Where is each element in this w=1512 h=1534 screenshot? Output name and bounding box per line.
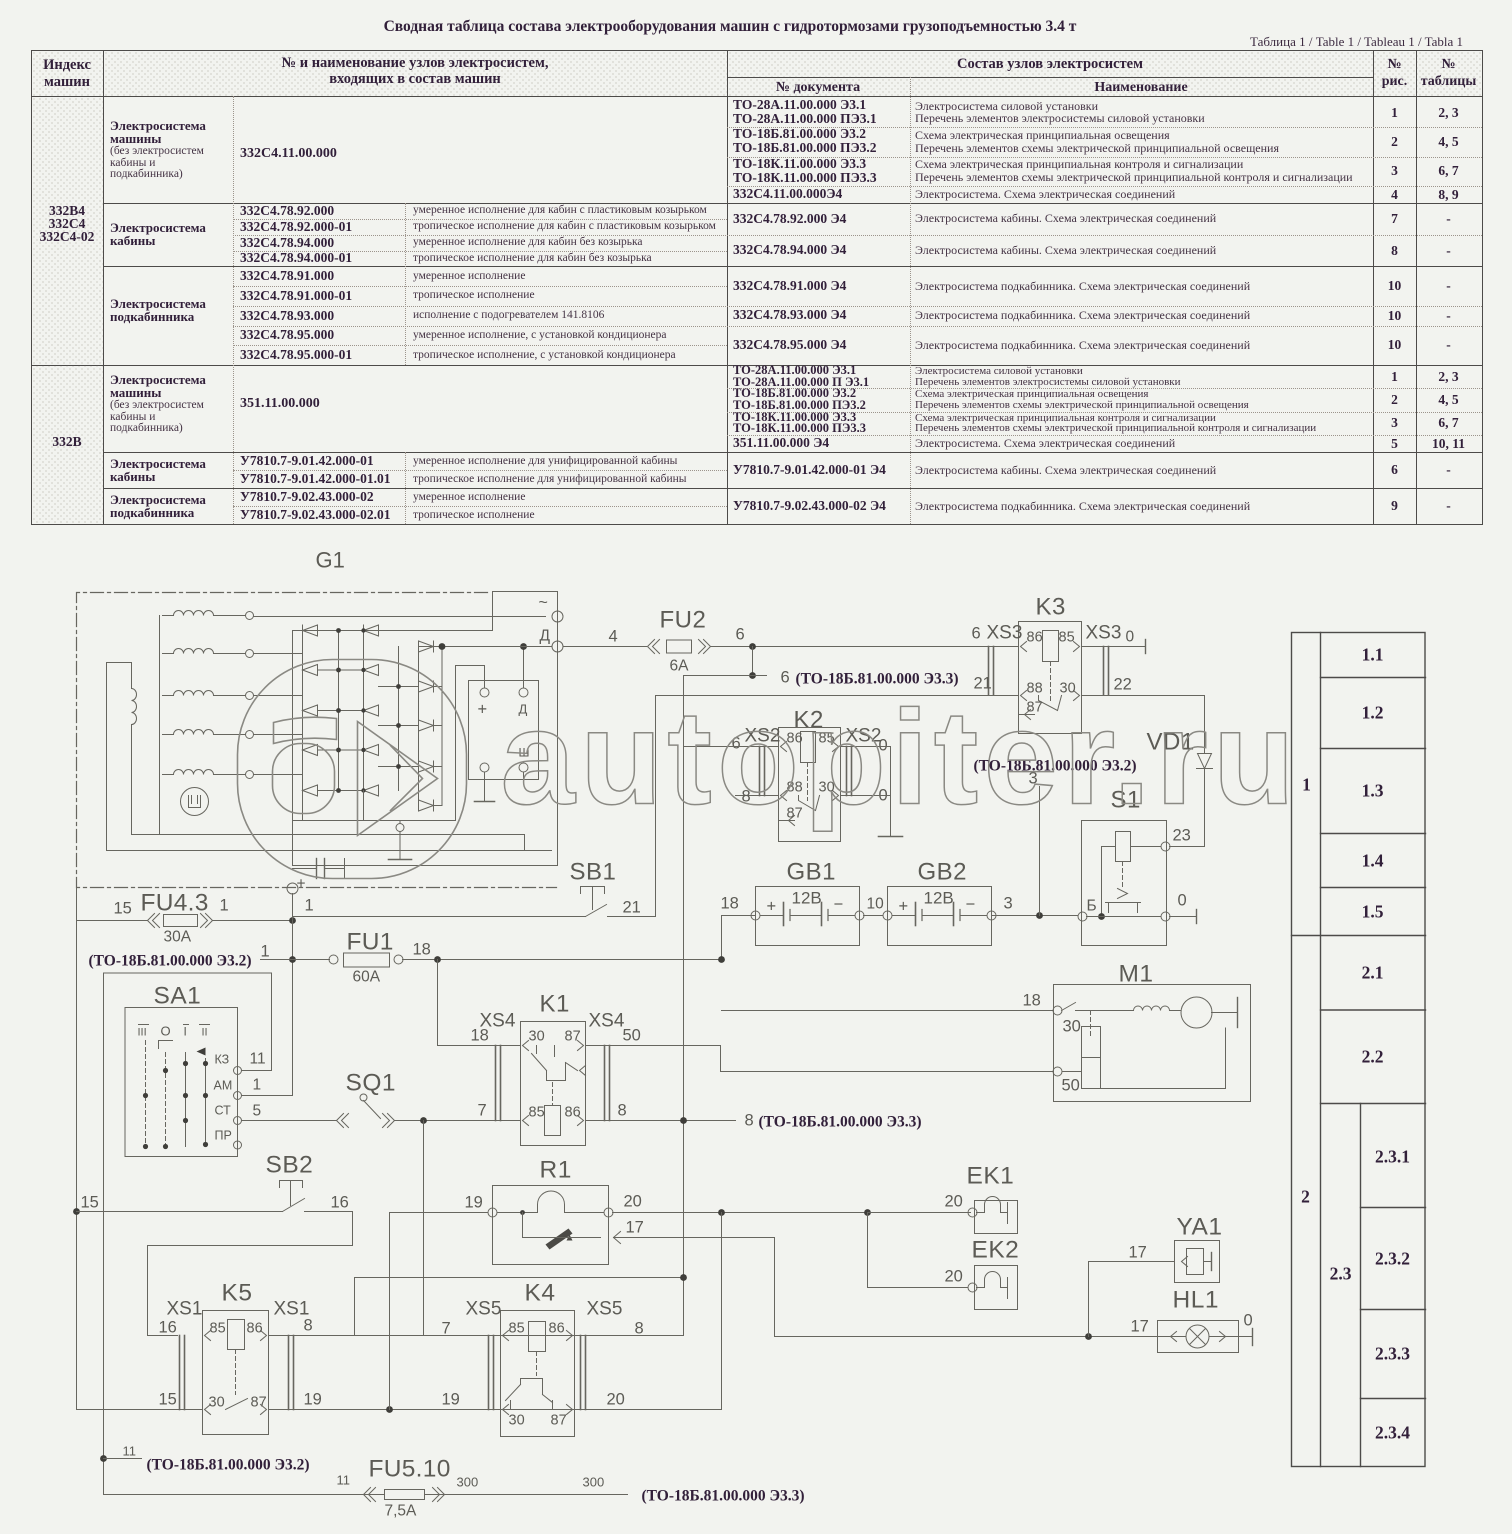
svg-text:16: 16: [159, 1319, 177, 1337]
SA1 position lines: [145, 1041, 147, 1147]
svg-text:2.3.1: 2.3.1: [1375, 1147, 1410, 1167]
K2 ground wires: [841, 746, 891, 748]
svg-text:YA1: YA1: [1177, 1214, 1223, 1241]
svg-text:19: 19: [465, 1194, 483, 1212]
K4 wires 7/8: [424, 1335, 501, 1337]
bottom wire net 15/19/20: [77, 1409, 203, 1411]
svg-text:~: ~: [539, 595, 548, 612]
svg-text:12В: 12В: [792, 889, 822, 908]
svg-text:6: 6: [736, 626, 745, 644]
svg-text:8: 8: [304, 1317, 313, 1335]
K1 coil: [545, 1106, 561, 1136]
stator winding phase 3: [163, 695, 174, 697]
svg-text:(ТО-18Б.81.00.000 Э3.3): (ТО-18Б.81.00.000 Э3.3): [759, 1114, 922, 1131]
wire 15 to SB2: [76, 921, 78, 1410]
svg-text:GB1: GB1: [787, 859, 837, 886]
svg-text:6: 6: [972, 625, 981, 643]
svg-text:−: −: [966, 896, 976, 914]
brush slip-ring symbol: [181, 788, 209, 816]
wire 20 to EK1: [868, 1212, 968, 1214]
svg-text:HL1: HL1: [1173, 1287, 1219, 1314]
wire 6 (FU2 to K3): [711, 646, 1019, 648]
bridge bottom bus: [302, 791, 304, 821]
rectifier unit box: [293, 592, 558, 866]
S1 coil: [1116, 832, 1131, 862]
svg-text:3: 3: [1004, 895, 1013, 913]
wire 18 (GB1 to bus): [722, 915, 756, 917]
svg-text:1: 1: [253, 1077, 262, 1094]
svg-text:SB2: SB2: [266, 1152, 314, 1179]
svg-text:1.4: 1.4: [1362, 851, 1384, 871]
svg-text:7: 7: [442, 1320, 451, 1338]
K5 pin arrows: [205, 1331, 211, 1341]
wire АМ (net 1): [242, 1095, 293, 1097]
K2 coil: [801, 732, 816, 763]
svg-text:11: 11: [337, 1473, 351, 1488]
svg-text:III: III: [138, 1027, 147, 1039]
generator ground terminal: [396, 824, 404, 832]
svg-text:10: 10: [867, 896, 885, 913]
wire 10 (GB1 to GB2): [864, 915, 883, 917]
K1 wires 7/8: [496, 1120, 521, 1122]
svg-text:autopiter.ru: autopiter.ru: [501, 684, 1300, 833]
svg-text:1: 1: [220, 897, 229, 915]
svg-text:15: 15: [81, 1194, 99, 1212]
wire 8 from K5: [269, 1335, 684, 1337]
svg-text:О: О: [161, 1024, 171, 1039]
wire 7 riser to K4: [423, 1121, 425, 1336]
svg-text:0: 0: [1178, 892, 1187, 910]
svg-text:85: 85: [1059, 630, 1075, 646]
bridge row links: [338, 631, 340, 791]
svg-text:17: 17: [1131, 1318, 1149, 1336]
wire net 6 vertical: [683, 676, 685, 1336]
voltage regulator box: [469, 681, 539, 780]
svg-text:II: II: [202, 1027, 208, 1039]
svg-text:1: 1: [1302, 775, 1311, 795]
svg-text:XS1: XS1: [167, 1299, 203, 1320]
svg-text:16: 16: [331, 1194, 349, 1212]
svg-text:1: 1: [305, 897, 314, 915]
svg-text:XS5: XS5: [587, 1299, 623, 1320]
capacitor at B+: [293, 868, 317, 870]
svg-text:SQ1: SQ1: [346, 1070, 397, 1097]
S1 terminal 23: [1161, 842, 1170, 851]
wire 16 from SB2: [305, 1211, 353, 1213]
svg-text:50: 50: [1062, 1077, 1080, 1095]
S1 terminal 0: [1161, 912, 1170, 921]
svg-text:8: 8: [618, 1102, 627, 1120]
wire 19 to R1: [390, 1212, 488, 1214]
svg-text:K5: K5: [222, 1280, 253, 1307]
SB2 contact blade: [283, 1199, 305, 1212]
terminal + of G1: [287, 883, 298, 894]
svg-text:1.2: 1.2: [1362, 703, 1384, 723]
svg-text:19: 19: [442, 1391, 460, 1409]
wire 8 upper link: [355, 1277, 684, 1279]
svg-text:0: 0: [1126, 629, 1135, 646]
svg-text:87: 87: [551, 1413, 567, 1429]
regulator wiring: [484, 666, 486, 689]
svg-text:1.5: 1.5: [1362, 902, 1384, 922]
svg-text:11: 11: [123, 1444, 137, 1459]
wire 3 riser to annotation: [1039, 787, 1041, 916]
stator winding phase 2: [163, 653, 174, 655]
svg-text:30: 30: [209, 1395, 225, 1411]
wire 21 riser: [655, 696, 657, 917]
svg-text:XS3: XS3: [987, 623, 1023, 644]
svg-text:EK2: EK2: [972, 1237, 1020, 1264]
svg-text:M1: M1: [1119, 961, 1154, 988]
R1 element: [497, 1212, 538, 1214]
svg-text:50: 50: [623, 1027, 641, 1045]
svg-text:+: +: [767, 898, 777, 916]
S1 terminal Б: [1078, 912, 1087, 921]
svg-text:300: 300: [457, 1475, 479, 1490]
svg-text:21: 21: [623, 899, 641, 917]
svg-text:85: 85: [509, 1321, 525, 1337]
svg-text:7,5А: 7,5А: [385, 1503, 418, 1520]
diode bridge column B: [363, 631, 365, 791]
terminal Д of G1: [552, 641, 563, 652]
svg-text:8: 8: [635, 1320, 644, 1338]
K3 pin arrows: [1021, 642, 1027, 652]
K4 pin arrows: [503, 1331, 509, 1341]
svg-text:30: 30: [509, 1413, 525, 1429]
svg-text:18: 18: [413, 941, 431, 959]
svg-text:−: −: [834, 896, 844, 914]
M1 wire 18: [722, 1010, 1053, 1012]
regulator ground: [484, 772, 486, 801]
svg-text:87: 87: [565, 1029, 581, 1045]
M1 motor: [1134, 1006, 1170, 1011]
svg-text:86: 86: [549, 1321, 565, 1337]
svg-text:15: 15: [159, 1391, 177, 1409]
M1 terminal 18: [1053, 1006, 1062, 1015]
generator G1 enclosure (dash-dot): [77, 593, 557, 888]
svg-text:300: 300: [583, 1475, 605, 1490]
K5 contact: [226, 1399, 248, 1410]
K1 contact: [532, 1046, 578, 1081]
svg-text:86: 86: [247, 1321, 263, 1337]
svg-text:17: 17: [626, 1219, 644, 1237]
svg-text:FU5.10: FU5.10: [369, 1456, 451, 1483]
svg-text:XS3: XS3: [1086, 623, 1122, 644]
R1 terminals: [488, 1208, 497, 1217]
wire 15/1 FU4.3 feed: [76, 888, 78, 921]
M1 terminal 50: [1053, 1067, 1062, 1076]
K3 coil: [1043, 631, 1059, 662]
svg-text:K4: K4: [525, 1280, 556, 1307]
wire 18 bus: [403, 959, 722, 961]
K4 bottom wire passthrough: [501, 1409, 575, 1411]
K3 contact: [1039, 696, 1062, 711]
wire 20 riser to K4: [721, 1213, 723, 1410]
wire СТ (net 5) to SQ1: [242, 1120, 337, 1122]
svg-text:G1: G1: [316, 548, 345, 573]
svg-text:1.1: 1.1: [1362, 645, 1384, 665]
svg-text:2.3: 2.3: [1330, 1264, 1352, 1284]
svg-text:19: 19: [304, 1391, 322, 1409]
svg-text:+: +: [899, 898, 909, 916]
svg-text:ПР: ПР: [215, 1129, 232, 1143]
svg-text:I: I: [184, 1025, 187, 1039]
field connection wires: [132, 834, 525, 836]
svg-text:R1: R1: [540, 1157, 572, 1184]
K3 pin 87 stub: [1019, 714, 1035, 716]
M1 solenoid coils: [1082, 1027, 1101, 1058]
svg-text:6А: 6А: [670, 658, 690, 675]
svg-text:20: 20: [607, 1391, 625, 1409]
wire 6 into K3: [988, 646, 1019, 648]
stator winding bus: [159, 616, 161, 775]
regulator terminals: [480, 688, 489, 697]
svg-text:17: 17: [1129, 1244, 1147, 1262]
K1 pin arrows: [523, 1041, 529, 1051]
svg-text:7: 7: [478, 1102, 487, 1120]
svg-text:FU1: FU1: [347, 929, 394, 956]
svg-text:GB2: GB2: [918, 859, 968, 886]
wire B+ vertical (net 1): [292, 894, 294, 1096]
svg-text:XS5: XS5: [466, 1299, 502, 1320]
stator winding phase 5: [163, 774, 174, 776]
legend grid: [1292, 633, 1426, 1467]
svg-text:85: 85: [210, 1321, 226, 1337]
svg-text:1: 1: [261, 943, 270, 961]
svg-text:КЗ: КЗ: [215, 1053, 230, 1067]
svg-text:XS4: XS4: [589, 1011, 625, 1032]
svg-text:2: 2: [1301, 1187, 1310, 1207]
svg-text:(ТО-18Б.81.00.000 Э3.2): (ТО-18Б.81.00.000 Э3.2): [147, 1457, 310, 1474]
S1 contact: [1118, 889, 1128, 899]
svg-text:18: 18: [721, 895, 739, 913]
svg-text:(ТО-18Б.81.00.000 Э3.2): (ТО-18Б.81.00.000 Э3.2): [89, 953, 252, 970]
svg-text:FU2: FU2: [660, 607, 707, 634]
K5 coil: [228, 1320, 245, 1350]
diode bridge column A: [302, 631, 304, 791]
watermark autopiter logo: [238, 660, 467, 879]
wire 6 into K2: [684, 746, 779, 748]
wire 3 (GB2 to S1): [992, 915, 1078, 917]
svg-text:SA1: SA1: [154, 983, 202, 1010]
svg-text:5: 5: [253, 1103, 262, 1120]
svg-text:12В: 12В: [924, 889, 954, 908]
svg-text:2.3.3: 2.3.3: [1375, 1344, 1410, 1364]
wire 17 from R1 wiper: [614, 1237, 775, 1239]
rotor field winding: [132, 689, 137, 725]
svg-text:2.3.4: 2.3.4: [1375, 1423, 1410, 1443]
svg-text:+: +: [478, 701, 488, 719]
S1 end bar 0: [1170, 916, 1197, 918]
svg-text:20: 20: [624, 1193, 642, 1211]
svg-text:11: 11: [250, 1051, 266, 1068]
svg-text:30: 30: [529, 1029, 545, 1045]
K2 contact: [799, 796, 820, 811]
wire 20 branch to EK2: [867, 1213, 869, 1288]
wire 21 (SB1 to K3): [656, 695, 1019, 697]
wire 20 from R1: [613, 1212, 971, 1214]
svg-text:0: 0: [1244, 1312, 1253, 1330]
svg-text:20: 20: [945, 1193, 963, 1211]
wire 4 (Д to FU2): [563, 646, 647, 648]
svg-text:2.3.2: 2.3.2: [1375, 1249, 1410, 1269]
svg-text:60А: 60А: [353, 969, 381, 986]
svg-text:85: 85: [529, 1105, 545, 1121]
svg-text:30А: 30А: [164, 929, 192, 946]
SA1 outer wire box (net KЗ/11): [104, 973, 272, 1495]
svg-text:18: 18: [1023, 992, 1041, 1010]
wire Д bus to bridge: [419, 646, 553, 648]
wire 0 from K3: [1082, 646, 1146, 648]
svg-text:30: 30: [1063, 1018, 1081, 1036]
terminal ~ of G1: [552, 611, 563, 622]
svg-text:K3: K3: [1036, 594, 1066, 621]
HL1 end bar 0: [1239, 1336, 1253, 1338]
stator winding phase 1: [163, 615, 174, 617]
svg-text:15: 15: [114, 900, 132, 918]
K1 wires 18/50: [437, 960, 439, 1046]
svg-text:(ТО-18Б.81.00.000 Э3.3): (ТО-18Б.81.00.000 Э3.3): [642, 1488, 805, 1505]
wire 22a to S1 pin 23: [1170, 846, 1205, 848]
svg-text:8: 8: [745, 1112, 754, 1130]
svg-text:K1: K1: [540, 991, 570, 1018]
svg-text:EK1: EK1: [967, 1163, 1015, 1190]
wire 22 (K3 to VD1): [1082, 695, 1205, 697]
svg-text:86: 86: [1027, 630, 1043, 646]
wire 6 branch to sheet: [752, 647, 754, 676]
svg-text:4: 4: [609, 628, 618, 646]
svg-text:СТ: СТ: [215, 1104, 232, 1118]
svg-text:2.2: 2.2: [1362, 1047, 1384, 1067]
wire 11 branch: [100, 1455, 107, 1462]
stator winding phase 4: [163, 734, 174, 736]
svg-text:АМ: АМ: [214, 1079, 233, 1093]
svg-text:86: 86: [565, 1105, 581, 1121]
R1 wiper: [520, 1210, 525, 1215]
diode bridge column C: [418, 647, 420, 806]
ground at K2: [879, 836, 903, 838]
K2 pin 87 stub: [779, 820, 795, 822]
svg-text:FU4.3: FU4.3: [141, 890, 209, 917]
wire 8 stub at K2: [736, 795, 779, 797]
svg-text:1.3: 1.3: [1362, 781, 1384, 801]
svg-text:Д: Д: [540, 628, 551, 645]
K2 pin arrows: [781, 742, 787, 752]
svg-text:SB1: SB1: [570, 859, 617, 886]
svg-text:Б: Б: [1087, 898, 1097, 915]
K4 contact: [506, 1379, 553, 1410]
wire 17 to YA1: [1088, 1262, 1090, 1337]
svg-text:20: 20: [945, 1268, 963, 1286]
svg-text:2.1: 2.1: [1362, 963, 1384, 983]
svg-text:XS4: XS4: [480, 1011, 516, 1032]
K4 coil: [529, 1322, 546, 1352]
